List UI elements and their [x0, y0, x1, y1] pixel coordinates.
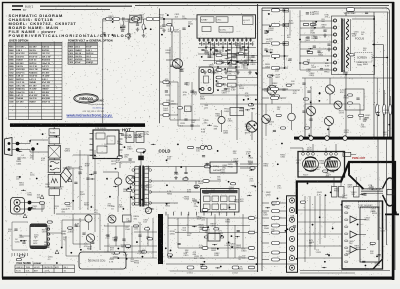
jumper L851 [187, 266, 194, 274]
feedback caps [106, 235, 149, 240]
varistor VDR801 [142, 19, 146, 37]
svg-text:R871C873: R871C873 [211, 223, 217, 227]
ac inlet P801 [5, 138, 21, 156]
pwb-crt board outline [297, 162, 395, 214]
feedback mesh h [104, 226, 157, 258]
label HOT [122, 128, 131, 133]
bottom mesh h3 [175, 232, 258, 234]
bottom mesh h4 [178, 247, 250, 249]
svg-text:FILE NAME : power: FILE NAME : power [17, 261, 42, 265]
diode D853 [203, 191, 209, 194]
svg-text:Original delivery: Original delivery [88, 103, 105, 106]
line filter LF801 [48, 160, 60, 173]
bottom mesh h1 [168, 217, 258, 219]
svg-text:R871C873: R871C873 [355, 245, 361, 249]
svg-text:HOT: HOT [122, 128, 131, 133]
long vertical 237 [236, 42, 238, 140]
transistor Q806 [85, 215, 92, 230]
svg-text:L/C52: L/C52 [232, 272, 239, 274]
svg-text:C864R871: C864R871 [365, 217, 371, 221]
wire hv bus [302, 77, 392, 79]
fbt T902 core and windings [334, 19, 351, 73]
wire AC top [103, 18, 197, 20]
svg-text:R871C873: R871C873 [42, 229, 48, 233]
wire ac run [31, 203, 44, 210]
line filter chain box 2 [49, 137, 60, 144]
wire to smps [166, 45, 178, 60]
svg-text:D803R882: D803R882 [269, 28, 275, 32]
connector pills bottom [248, 217, 254, 269]
resistor R932 [383, 90, 386, 137]
svg-text:C864R871: C864R871 [205, 230, 211, 234]
rgb signal wires [305, 196, 325, 262]
capacitor C852 [184, 167, 188, 180]
secondary wire 2 [150, 180, 200, 182]
resistor R933 [389, 96, 392, 137]
bottom bus wire [170, 270, 258, 272]
vertical ic IC851 block [201, 189, 240, 213]
bottom mesh v [168, 214, 243, 258]
ic U801 inner block 1 [201, 17, 215, 22]
svg-text:R820C864: R820C864 [319, 161, 325, 165]
hv caps [184, 83, 193, 126]
secondary wire 3 [150, 191, 200, 193]
transistor Q810 [108, 215, 116, 223]
parts option table [9, 39, 63, 120]
label PWB-CRT [352, 156, 365, 160]
hv wires [178, 82, 200, 130]
junction squares [205, 47, 253, 68]
svg-text:X-RAY: X-RAY [201, 19, 208, 22]
crt rgb feed wires [334, 177, 356, 187]
svg-text:C873R820: C873R820 [216, 52, 222, 56]
transformer top cap [137, 149, 146, 166]
crt drive wires [298, 210, 343, 258]
warning triangle 1 [23, 214, 27, 218]
photocoupler PC801 [126, 175, 135, 184]
crt socket connector P901 [287, 196, 298, 272]
transistor Q802 [145, 205, 151, 214]
border frame right bar [392, 2, 395, 280]
svg-text:COLD: COLD [159, 148, 171, 153]
svg-text:FUSE: FUSE [50, 132, 56, 134]
svg-text:R851C841: R851C841 [19, 182, 25, 186]
svg-text:R851C841: R851C841 [280, 154, 286, 158]
fuse F801 [106, 18, 120, 21]
inner top board line [135, 4, 389, 6]
transistor Q905 [267, 78, 277, 104]
svg-text:FOCUS: FOCUS [355, 37, 364, 41]
label FOCUS [355, 37, 364, 41]
svg-text:C873R820: C873R820 [225, 219, 231, 223]
transistor Q851 HOUT [246, 112, 257, 140]
capacitor C808b [78, 172, 96, 179]
degauss plug CN803 [11, 198, 25, 215]
logo [66, 94, 114, 118]
edge wires [262, 10, 300, 90]
crt rgb box B [354, 187, 360, 198]
regulator IC851 [210, 162, 237, 173]
pill connector c [160, 114, 178, 117]
svg-text:R820C864: R820C864 [192, 92, 198, 96]
rectifier rows [216, 53, 258, 87]
crt board inner box [360, 207, 379, 262]
wire bus h1 [198, 47, 256, 49]
transistor Q906 [334, 101, 342, 109]
wire 9v [240, 167, 255, 169]
svg-text:R862R851: R862R851 [245, 124, 251, 128]
svg-text:R871C873: R871C873 [339, 110, 345, 114]
svg-text:R820C864: R820C864 [184, 196, 190, 200]
transistor Q854 [262, 104, 271, 136]
ground bus bar [294, 137, 392, 140]
svg-text:BUS/ 2: BUS/ 2 [25, 4, 34, 8]
capacitor C853 [194, 181, 197, 188]
bottom wire long [166, 264, 390, 273]
crt rgb box G [339, 187, 345, 198]
resistor R931 [376, 78, 379, 137]
degauss coil box [79, 252, 126, 269]
svg-text:L/C51: L/C51 [187, 272, 194, 274]
wire 12v [240, 163, 258, 165]
capacitor C905 [306, 37, 317, 38]
junction dot [31, 147, 35, 160]
capacitor C907 [323, 30, 327, 37]
capacitor C801 [122, 17, 125, 27]
transistor Q801 [173, 59, 183, 69]
mid pill column [201, 209, 208, 269]
abl box [345, 89, 364, 110]
wires fbt pin feeds [300, 21, 335, 70]
ground bus pads [299, 136, 348, 141]
bridge rectifier BD801 [61, 168, 72, 183]
board outline right [262, 8, 390, 137]
edge vertical link [284, 9, 286, 69]
crt board amplifier [342, 201, 383, 269]
svg-text:C873R820: C873R820 [344, 130, 350, 134]
secondary wire 1 [149, 166, 205, 168]
transistor Q807 [86, 234, 94, 250]
bl extra wires [12, 222, 30, 257]
bottom mesh h5 [168, 257, 258, 259]
svg-text:SCREEN: SCREEN [357, 57, 367, 60]
transistor Q903 [306, 100, 315, 137]
transistor Q902 [325, 78, 334, 104]
pill connector b [160, 103, 178, 106]
transistor Q852 [218, 110, 225, 132]
edge pill row 98 [262, 97, 286, 100]
footer title table [15, 261, 75, 273]
wire bus h4 [198, 66, 240, 68]
svg-text:www.microelectronic.co.yu: www.microelectronic.co.yu [66, 113, 112, 117]
degauss posistor [39, 195, 44, 212]
jumper L852 [232, 266, 239, 274]
node j1 [162, 18, 166, 32]
svg-text:POWER VOLT or GENERAL OPTION: POWER VOLT or GENERAL OPTION [68, 39, 113, 43]
crt rgb box R [332, 187, 338, 198]
capacitor cluster under ic [201, 50, 254, 64]
heatsink bar [158, 214, 163, 264]
label COLD [159, 148, 171, 153]
svg-text:C873R820: C873R820 [87, 247, 93, 251]
svg-text:DEGAUSS COIL: DEGAUSS COIL [88, 260, 106, 263]
hot/cold isolation bar [10, 123, 145, 127]
wires bottom left [47, 214, 100, 256]
anode cap [344, 8, 356, 15]
border frame bottom bar [2, 277, 394, 280]
mid wires [165, 30, 292, 120]
crt right edge wires [386, 216, 395, 271]
svg-text:R851C841: R851C841 [248, 161, 254, 165]
opto feed wire [118, 184, 130, 215]
capacitor C851 [174, 167, 178, 180]
transistor Q904 [324, 116, 333, 136]
title block text [9, 13, 133, 38]
fbt junction dots [345, 44, 388, 76]
svg-text:OSC: OSC [217, 20, 222, 22]
hv small box [185, 106, 192, 112]
snubber box [123, 215, 132, 222]
wire fbt top loop [346, 12, 387, 16]
svg-text:D803R882: D803R882 [357, 62, 363, 66]
svg-text:D803R882: D803R882 [234, 199, 240, 203]
connector pair CN851 [188, 145, 212, 149]
power volt option table [68, 39, 113, 65]
ic U801 inner block 5 [202, 27, 211, 32]
svg-text:R862R851: R862R851 [124, 135, 130, 139]
svg-text:C864R871: C864R871 [311, 36, 317, 40]
wire bus h2 [198, 53, 247, 55]
capacitor C908 [327, 44, 331, 51]
chain box M [48, 174, 60, 187]
picture tube V901 [361, 178, 395, 206]
wire screen out [372, 57, 387, 59]
wire hot divider [159, 9, 161, 124]
svg-text:R862R851: R862R851 [236, 245, 242, 249]
wire q bus [305, 104, 360, 137]
svg-text:R862R851: R862R851 [264, 163, 270, 167]
wire v fbt3 [386, 12, 388, 137]
line filter chain box 1 [49, 129, 60, 136]
yoke feed wires [290, 144, 336, 152]
svg-text:C864R871: C864R871 [245, 130, 251, 134]
svg-text:D803R882: D803R882 [166, 50, 172, 54]
left col parts [302, 78, 312, 137]
svg-text:R820C864: R820C864 [16, 161, 22, 165]
svg-text:R871C873: R871C873 [243, 66, 249, 70]
ic U801 pins [199, 38, 252, 44]
ic U801 inner block 3 [243, 16, 254, 24]
wire focus out [372, 44, 383, 46]
diode D902 [307, 51, 320, 54]
heater vertical wires [378, 140, 387, 246]
wire vert feed [299, 10, 301, 70]
inlet dots [16, 142, 20, 152]
board edge line B [261, 8, 263, 271]
board edge line A [257, 4, 259, 272]
line filter L801 [130, 15, 141, 23]
revision strip line [12, 4, 132, 8]
svg-text:R820C864: R820C864 [199, 225, 205, 229]
diode D851 [204, 165, 257, 168]
crt socket dashed box [358, 202, 379, 208]
svg-text:BY: BY [23, 8, 27, 12]
resistor R801 [146, 18, 160, 21]
diode D852 [203, 180, 221, 183]
deflection yoke DY901 [298, 152, 345, 178]
capacitor C803 [136, 19, 140, 31]
grounds under ic [203, 71, 252, 75]
crt neck ground diag [349, 163, 364, 189]
ic U801 inner block 2 [216, 17, 228, 22]
wire v fbt2 [382, 45, 384, 138]
svg-text:D803R882: D803R882 [211, 248, 217, 252]
ic U801 inner block 4 [219, 27, 233, 33]
svg-text:H.OUT: H.OUT [243, 20, 250, 22]
crt anode dot [385, 211, 399, 215]
warning triangle 2 [55, 250, 59, 254]
svg-text:D803R882: D803R882 [61, 231, 67, 235]
x-capacitor CX801 [48, 145, 60, 158]
diode D901 [303, 23, 316, 25]
small box pair [343, 152, 356, 156]
capacitor C802 [127, 19, 130, 35]
cap bank wires [63, 150, 95, 210]
revision strip line 2 [12, 8, 110, 12]
inlet wires [19, 140, 49, 152]
svg-text:OVER OPTION: OVER OPTION [9, 39, 28, 43]
chain end box [49, 189, 60, 196]
secondary wire 4 [150, 202, 178, 204]
hot side fb boxes [126, 132, 144, 143]
ic X801 box [204, 234, 224, 242]
wire bus h5 [201, 43, 254, 45]
vertical ic pin row [166, 212, 234, 216]
connector CN901 ovals [262, 9, 288, 70]
svg-text:C873R820: C873R820 [371, 209, 377, 213]
svg-text:STR-F6654: STR-F6654 [95, 128, 107, 130]
chain feed wire [53, 127, 55, 214]
edge pill row 89 [262, 88, 288, 91]
edge small boxes [283, 9, 289, 46]
feedback pills [125, 225, 146, 253]
relay RY801 [30, 224, 50, 249]
screen dashed box [355, 53, 373, 63]
ground g1 [127, 36, 131, 40]
connector CN902 ovals [262, 202, 287, 262]
wire heater [345, 75, 347, 137]
smps transformer T801 [132, 166, 152, 207]
bl pin stubs [12, 253, 28, 256]
svg-text:R820C864: R820C864 [265, 64, 271, 68]
svg-text:D803R882: D803R882 [139, 15, 145, 19]
fuse holder [20, 201, 31, 211]
hdrive box [230, 108, 244, 116]
capacitor C805 [171, 19, 174, 45]
svg-text:IC851: IC851 [213, 166, 220, 168]
svg-text:C864R871: C864R871 [229, 187, 235, 191]
svg-text:R862R851: R862R851 [310, 73, 316, 77]
bottom mesh h2 [168, 225, 250, 227]
wire v fbt1 [373, 12, 375, 137]
resistor R905 [299, 62, 309, 64]
svg-text:R851C841: R851C841 [314, 11, 320, 15]
svg-text:C864R871: C864R871 [135, 135, 141, 139]
shield module M801 [199, 67, 214, 94]
svg-text:R871C873: R871C873 [222, 90, 228, 94]
svg-text:H-DY: H-DY [303, 174, 309, 176]
feedback mesh v [108, 218, 153, 258]
svg-text:R851C841: R851C841 [215, 114, 221, 118]
wire AC left drop [102, 19, 104, 123]
pill connector a [160, 81, 178, 84]
wire mesh under ic [202, 42, 253, 64]
smps primary wires [103, 123, 135, 168]
thermistor TH801 [103, 172, 122, 196]
warning triangle 3 [68, 178, 72, 182]
smps control ic STR801 [90, 128, 123, 158]
ic U801 outline [197, 15, 256, 38]
wire bus h3 [203, 60, 256, 62]
edge small parts [264, 32, 291, 129]
transistor Q853 [288, 104, 296, 130]
fbt T902 outline [332, 16, 375, 75]
wire fbt right top [352, 18, 375, 20]
svg-text:D803R882: D803R882 [66, 167, 72, 171]
